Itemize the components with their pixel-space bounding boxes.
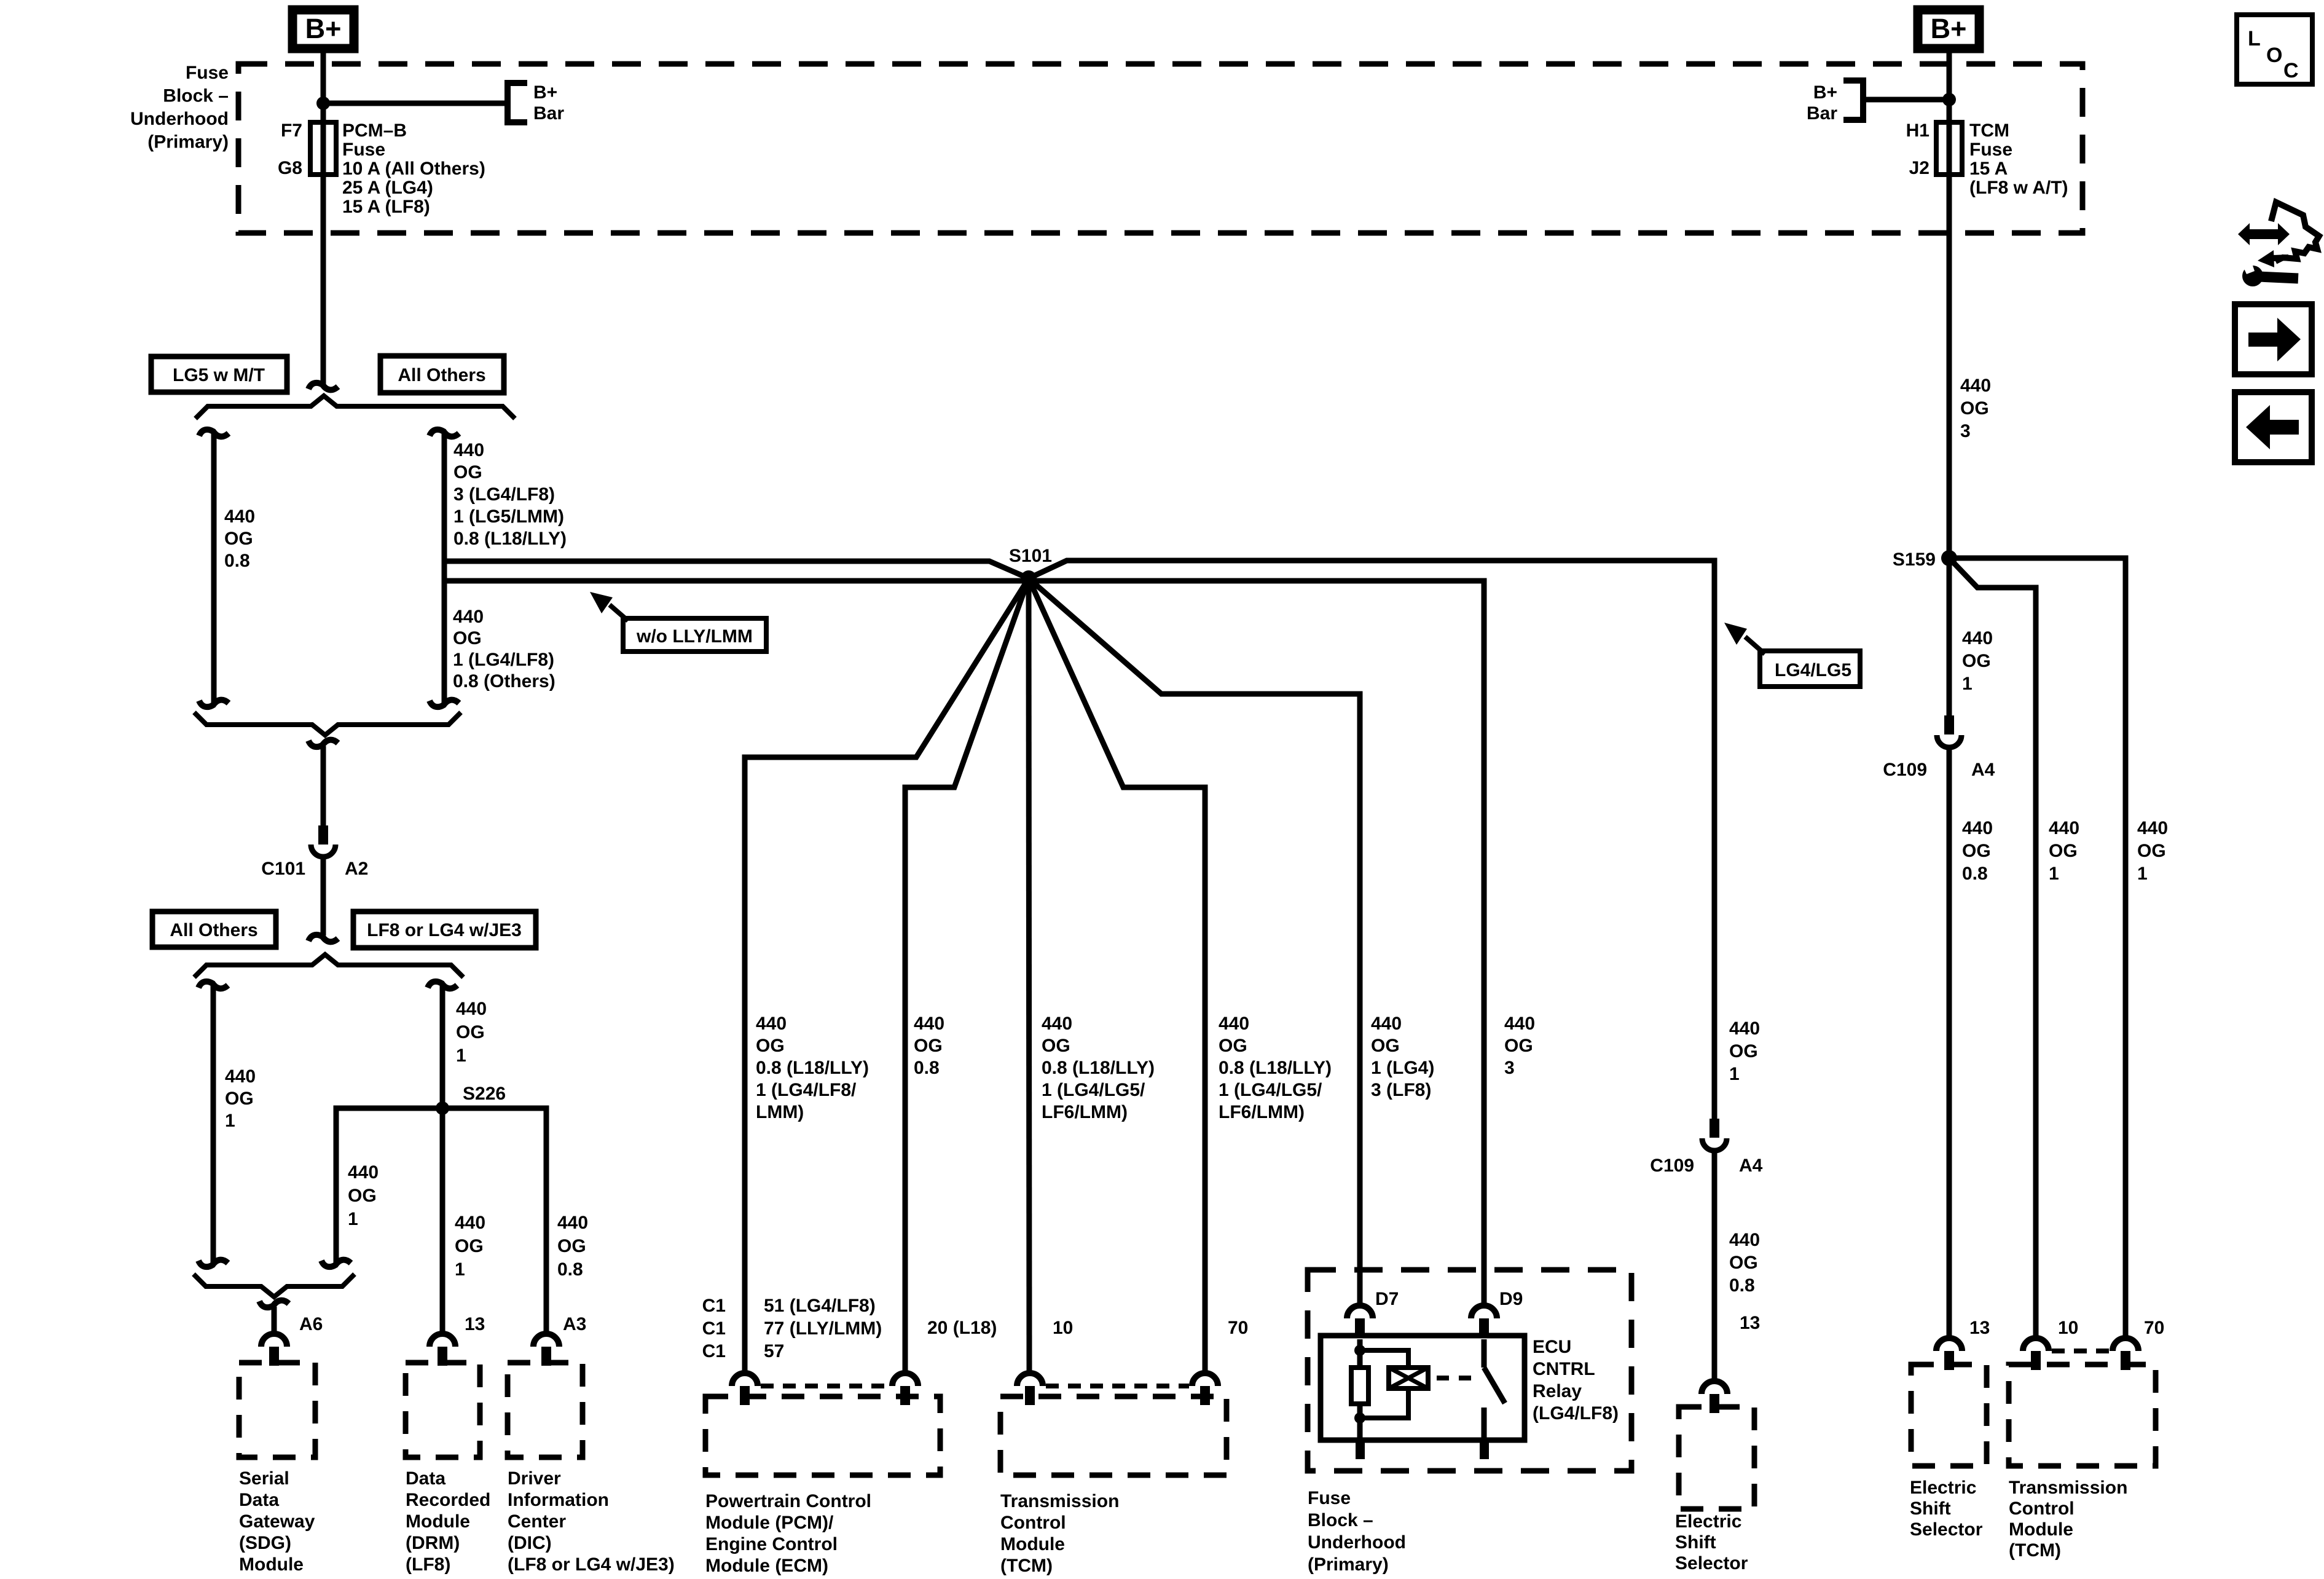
svg-text:OG: OG	[453, 462, 482, 482]
svg-text:1: 1	[225, 1111, 235, 1131]
power terminal B+ (left)	[292, 10, 354, 49]
svg-text:Selector: Selector	[1910, 1519, 1983, 1540]
arrow prev box	[2235, 392, 2312, 462]
wire S159 to pin 10 right	[1949, 558, 2036, 1336]
svg-text:(TCM): (TCM)	[1000, 1556, 1053, 1576]
svg-text:51 (LG4/LF8): 51 (LG4/LF8)	[764, 1296, 876, 1316]
svg-text:440: 440	[1729, 1230, 1760, 1250]
connector C1 51/77/57 (PCM)	[732, 1373, 758, 1386]
svg-text:OG: OG	[1371, 1036, 1400, 1056]
svg-text:Information: Information	[508, 1490, 609, 1510]
connector D7	[1347, 1305, 1373, 1318]
wire S101 to PCM pin 20	[905, 578, 1029, 1371]
svg-text:70: 70	[1228, 1318, 1248, 1338]
callout w/o LLY/LMM	[623, 618, 766, 652]
svg-text:LF8 or LG4 w/JE3: LF8 or LG4 w/JE3	[367, 920, 522, 940]
svg-text:(DRM): (DRM)	[406, 1533, 460, 1553]
connector 10 (TCM)	[1017, 1373, 1043, 1386]
svg-text:w/o LLY/LMM: w/o LLY/LMM	[636, 626, 753, 647]
relay switch	[1482, 1339, 1487, 1368]
service icon bent arrow	[2274, 258, 2288, 258]
fuse F7 PCM-B	[310, 122, 336, 175]
svg-text:(TCM): (TCM)	[2009, 1540, 2061, 1561]
svg-text:OG: OG	[557, 1236, 586, 1256]
svg-text:Shift: Shift	[1910, 1498, 1951, 1519]
svg-text:F7: F7	[281, 120, 302, 141]
svg-text:13: 13	[1740, 1313, 1760, 1333]
svg-text:B+: B+	[305, 13, 342, 44]
svg-text:1 (LG5/LMM): 1 (LG5/LMM)	[453, 506, 564, 527]
svg-text:0.8 (Others): 0.8 (Others)	[453, 671, 555, 691]
svg-text:C109: C109	[1883, 760, 1927, 780]
svg-text:1 (LG4/LF8/: 1 (LG4/LF8/	[756, 1080, 857, 1100]
svg-text:Module (PCM)/: Module (PCM)/	[705, 1513, 834, 1533]
splice S101	[1021, 570, 1037, 586]
svg-text:Underhood: Underhood	[130, 109, 229, 129]
svg-text:CNTRL: CNTRL	[1533, 1359, 1595, 1379]
svg-text:OG: OG	[456, 1022, 485, 1042]
svg-text:OG: OG	[756, 1036, 785, 1056]
svg-text:440: 440	[224, 506, 255, 527]
module data recorded module	[406, 1363, 480, 1457]
svg-text:OG: OG	[1042, 1036, 1070, 1056]
svg-text:C1: C1	[702, 1296, 726, 1316]
svg-text:OG: OG	[225, 1089, 254, 1109]
svg-text:3: 3	[1960, 421, 1971, 441]
connector C109 A4 (branch)	[1710, 1119, 1719, 1138]
svg-text:Module: Module	[406, 1511, 470, 1532]
option box LF8 or LG4 w/JE3	[353, 912, 536, 948]
service icon wrench	[2242, 266, 2263, 286]
connector C101 A2	[318, 825, 328, 845]
svg-text:PCM–B: PCM–B	[342, 120, 407, 141]
svg-text:G8: G8	[278, 158, 302, 178]
svg-text:D9: D9	[1499, 1289, 1523, 1309]
arrow next box	[2235, 304, 2312, 374]
fuse H1 TCM	[1936, 122, 1962, 175]
option box All Others	[380, 356, 504, 393]
svg-text:(DIC): (DIC)	[508, 1533, 552, 1553]
svg-text:Electric: Electric	[1910, 1478, 1976, 1498]
svg-text:Block –: Block –	[1308, 1510, 1373, 1530]
wire S101 to C109 branch	[1029, 561, 1714, 1119]
wire S226 to DIC	[442, 1108, 546, 1332]
svg-text:LMM): LMM)	[756, 1102, 804, 1122]
locator LOC box	[2237, 15, 2312, 84]
svg-text:C: C	[2283, 59, 2299, 82]
svg-text:440: 440	[1729, 1018, 1760, 1039]
svg-text:All Others: All Others	[398, 365, 485, 385]
svg-text:C1: C1	[702, 1318, 726, 1339]
merge curl A6	[259, 1301, 289, 1307]
svg-text:440: 440	[1371, 1014, 1402, 1034]
svg-text:S159: S159	[1893, 549, 1936, 570]
wire to C101	[321, 746, 326, 825]
svg-text:OG: OG	[1960, 398, 1989, 419]
svg-text:OG: OG	[1962, 651, 1991, 671]
svg-text:1 (LG4): 1 (LG4)	[1371, 1058, 1434, 1078]
svg-text:1: 1	[2137, 864, 2148, 884]
svg-text:440: 440	[1042, 1014, 1072, 1034]
svg-text:LG5 w M/T: LG5 w M/T	[173, 365, 265, 385]
svg-text:0.8: 0.8	[557, 1259, 583, 1280]
split curl	[308, 383, 338, 390]
svg-text:L: L	[2248, 27, 2261, 50]
svg-text:57: 57	[764, 1341, 784, 1361]
option box LG5 w M/T	[151, 356, 287, 392]
wire w/o LLY/LMM through S101 to relay D9	[444, 581, 1484, 1304]
svg-text:0.8 (L18/LLY): 0.8 (L18/LLY)	[1219, 1058, 1332, 1078]
svg-text:OG: OG	[2137, 841, 2166, 861]
svg-text:440: 440	[914, 1014, 944, 1034]
option box All Others 2	[152, 912, 276, 947]
svg-text:Transmission: Transmission	[1000, 1491, 1119, 1511]
wire C109 to pin 13 right	[1947, 749, 1952, 1336]
svg-text:B+: B+	[1813, 82, 1837, 103]
split brace	[195, 396, 515, 419]
connector dashes TCM	[1046, 1384, 1189, 1388]
svg-text:1 (LG4/LG5/: 1 (LG4/LG5/	[1042, 1080, 1145, 1100]
svg-text:Module: Module	[239, 1554, 304, 1575]
svg-text:(LG4/LF8): (LG4/LF8)	[1533, 1403, 1619, 1423]
connector 70 (TCM)	[1192, 1373, 1218, 1386]
connector D9	[1471, 1305, 1497, 1318]
svg-text:Module: Module	[1000, 1534, 1065, 1554]
svg-text:440: 440	[1219, 1014, 1249, 1034]
svg-text:440: 440	[453, 440, 484, 460]
svg-text:Driver: Driver	[508, 1468, 561, 1489]
branch bracket right All Others	[430, 430, 459, 436]
wire S101 to TCM pin 70	[1029, 578, 1205, 1371]
connector 13 right	[1936, 1338, 1962, 1351]
module TCM (center)	[1000, 1396, 1227, 1475]
svg-text:3 (LG4/LF8): 3 (LG4/LF8)	[453, 484, 555, 505]
svg-text:15 A: 15 A	[1969, 159, 2008, 179]
connector 10 right	[2023, 1338, 2049, 1351]
svg-text:10 A (All Others): 10 A (All Others)	[342, 159, 485, 179]
svg-text:C101: C101	[261, 859, 305, 879]
callout LG4/LG5	[1760, 651, 1860, 687]
svg-text:Electric: Electric	[1675, 1511, 1741, 1532]
relay box	[1321, 1336, 1525, 1440]
svg-text:440: 440	[557, 1213, 588, 1233]
svg-text:S226: S226	[463, 1084, 506, 1104]
branch bracket left All Others 2	[198, 982, 228, 988]
relay coil-switch dashes	[1437, 1376, 1477, 1380]
module electric shift selector (right)	[1911, 1364, 1987, 1466]
splice S159	[1941, 550, 1957, 566]
svg-text:Gateway: Gateway	[239, 1511, 315, 1532]
module TCM (right)	[2009, 1364, 2156, 1466]
connector 20 (L18) (PCM)	[892, 1373, 918, 1386]
svg-text:Fuse: Fuse	[1969, 140, 2012, 160]
branch wire right to S226	[428, 982, 457, 988]
svg-text:Serial: Serial	[239, 1468, 289, 1489]
svg-text:J2: J2	[1909, 158, 1929, 178]
svg-text:(LF8 or LG4 w/JE3): (LF8 or LG4 w/JE3)	[508, 1554, 675, 1575]
svg-text:OG: OG	[1962, 841, 1991, 861]
svg-text:Module: Module	[2009, 1519, 2073, 1540]
svg-text:0.8: 0.8	[1962, 864, 1988, 884]
svg-text:440: 440	[1962, 628, 1993, 648]
wire B+ to S159	[1947, 53, 1952, 558]
connector 13 DRM	[430, 1334, 455, 1347]
service icon outline	[2271, 202, 2319, 261]
relay node top	[1354, 1345, 1365, 1356]
splice S226	[436, 1101, 449, 1115]
svg-text:C109: C109	[1650, 1156, 1694, 1176]
merge brace A6	[194, 1274, 355, 1297]
split brace 2	[194, 955, 463, 977]
merge brace left	[194, 712, 461, 735]
svg-text:Engine Control: Engine Control	[705, 1534, 838, 1554]
svg-text:(Primary): (Primary)	[147, 132, 229, 152]
svg-text:Underhood: Underhood	[1308, 1532, 1406, 1553]
svg-text:LF6/LMM): LF6/LMM)	[1219, 1102, 1305, 1122]
connector C109 A4 (right)	[1944, 715, 1954, 734]
svg-text:(LF8): (LF8)	[406, 1554, 450, 1575]
svg-text:D7: D7	[1375, 1289, 1399, 1309]
junction node	[316, 96, 330, 110]
wire S101 to PCM pin C1	[745, 578, 1029, 1371]
service icon double arrow	[2238, 223, 2290, 245]
svg-text:10: 10	[1053, 1318, 1073, 1338]
junction node right	[1942, 93, 1956, 106]
svg-text:440: 440	[225, 1066, 256, 1087]
svg-text:0.8 (L18/LLY): 0.8 (L18/LLY)	[1042, 1058, 1155, 1078]
svg-text:C1: C1	[702, 1341, 726, 1361]
svg-text:1: 1	[455, 1259, 465, 1280]
svg-text:Shift: Shift	[1675, 1532, 1716, 1553]
svg-text:TCM: TCM	[1969, 120, 2009, 141]
split curl 2	[308, 935, 338, 942]
svg-text:OG: OG	[1729, 1041, 1758, 1061]
svg-text:Data: Data	[406, 1468, 446, 1489]
connector 70 right	[2113, 1338, 2138, 1351]
svg-text:A3: A3	[563, 1314, 586, 1334]
svg-text:OG: OG	[348, 1186, 377, 1206]
svg-text:440: 440	[456, 999, 487, 1019]
svg-text:Control: Control	[1000, 1513, 1066, 1533]
svg-text:440: 440	[1962, 818, 1993, 838]
wire S226 left leg	[336, 1108, 442, 1264]
svg-text:Fuse: Fuse	[342, 140, 385, 160]
svg-text:(SDG): (SDG)	[239, 1533, 291, 1553]
B+ bar terminal (right)	[1843, 81, 1863, 120]
svg-text:(LF8 w A/T): (LF8 w A/T)	[1969, 178, 2068, 198]
fuse block underhood dashed box	[238, 64, 2083, 233]
svg-text:Block –: Block –	[163, 86, 229, 106]
svg-text:ECU: ECU	[1533, 1337, 1571, 1357]
module PCM/ECM	[705, 1396, 940, 1475]
svg-text:Recorded: Recorded	[406, 1490, 490, 1510]
svg-text:440: 440	[2049, 818, 2079, 838]
connector A3 DIC	[533, 1334, 559, 1347]
svg-text:A2: A2	[345, 859, 368, 879]
svg-text:Bar: Bar	[1807, 103, 1837, 124]
svg-text:Control: Control	[2009, 1498, 2075, 1519]
svg-text:All Others: All Others	[170, 920, 257, 940]
module electric shift selector (left)	[1679, 1407, 1754, 1509]
wire S159 down to C109	[1947, 558, 1952, 715]
svg-text:15 A (LF8): 15 A (LF8)	[342, 197, 430, 217]
svg-text:25 A (LG4): 25 A (LG4)	[342, 178, 433, 198]
svg-text:Data: Data	[239, 1490, 279, 1510]
wire to B+ bar (left)	[323, 101, 508, 106]
svg-text:LF6/LMM): LF6/LMM)	[1042, 1102, 1128, 1122]
svg-text:A4: A4	[1971, 760, 1995, 780]
svg-text:A4: A4	[1739, 1156, 1763, 1176]
svg-text:440: 440	[756, 1014, 787, 1034]
branch bracket left LG5	[199, 430, 229, 436]
relay coil	[1360, 1350, 1408, 1368]
svg-text:70: 70	[2144, 1318, 2164, 1338]
wire S101 to relay D7	[1029, 578, 1360, 1304]
module driver information center	[508, 1363, 583, 1457]
module serial data gateway	[239, 1363, 315, 1457]
svg-text:13: 13	[465, 1314, 485, 1334]
svg-text:(Primary): (Primary)	[1308, 1554, 1389, 1575]
svg-text:OG: OG	[453, 628, 482, 648]
wire to B+ bar (right)	[1863, 97, 1949, 103]
connector 13 ESS left	[1702, 1381, 1727, 1394]
svg-text:13: 13	[1969, 1318, 1990, 1338]
svg-text:1: 1	[348, 1209, 358, 1229]
relay node bottom	[1354, 1412, 1365, 1423]
wire S101 to TCM pin 10	[1029, 578, 1029, 1371]
svg-text:H1: H1	[1906, 120, 1929, 141]
svg-text:Relay: Relay	[1533, 1381, 1582, 1401]
svg-text:10: 10	[2058, 1318, 2078, 1338]
svg-text:1 (LG4/LF8): 1 (LG4/LF8)	[453, 650, 554, 670]
svg-text:1 (LG4/LG5/: 1 (LG4/LG5/	[1219, 1080, 1322, 1100]
svg-text:0.8 (L18/LLY): 0.8 (L18/LLY)	[453, 529, 567, 549]
svg-text:Powertrain Control: Powertrain Control	[705, 1491, 871, 1511]
svg-text:77 (LLY/LMM): 77 (LLY/LMM)	[764, 1318, 882, 1339]
svg-text:1: 1	[1729, 1064, 1740, 1084]
connector A6	[261, 1334, 287, 1347]
svg-text:0.8 (L18/LLY): 0.8 (L18/LLY)	[756, 1058, 869, 1078]
svg-text:OG: OG	[1219, 1036, 1247, 1056]
wire C101 to split 2	[321, 859, 326, 935]
svg-text:440: 440	[348, 1162, 379, 1183]
svg-text:OG: OG	[914, 1036, 943, 1056]
svg-text:1: 1	[1962, 674, 1973, 694]
svg-text:O: O	[2266, 44, 2282, 67]
svg-text:Fuse: Fuse	[1308, 1488, 1351, 1508]
wire S159 to pin 70 right	[1949, 558, 2126, 1336]
merge curl	[308, 740, 338, 747]
svg-text:B+: B+	[533, 82, 557, 103]
svg-text:Center: Center	[508, 1511, 566, 1532]
svg-text:0.8: 0.8	[1729, 1275, 1755, 1296]
svg-text:0.8: 0.8	[224, 551, 250, 571]
svg-text:Fuse: Fuse	[186, 63, 229, 83]
svg-text:1: 1	[2049, 864, 2059, 884]
svg-text:OG: OG	[2049, 841, 2078, 861]
wire B+ to split	[321, 53, 326, 385]
svg-text:440: 440	[1960, 376, 1991, 396]
svg-text:1: 1	[456, 1045, 466, 1066]
svg-text:440: 440	[455, 1213, 485, 1233]
svg-text:LG4/LG5: LG4/LG5	[1775, 660, 1851, 680]
wire C109 to ESS 13	[1712, 1152, 1717, 1379]
svg-text:B+: B+	[1931, 13, 1967, 44]
svg-text:OG: OG	[1729, 1253, 1758, 1273]
svg-text:A6: A6	[299, 1314, 323, 1334]
connector dashes right TCM	[2052, 1349, 2110, 1353]
svg-text:0.8: 0.8	[914, 1058, 940, 1078]
svg-text:Module (ECM): Module (ECM)	[705, 1556, 828, 1576]
svg-text:Bar: Bar	[533, 103, 564, 124]
connector dashes PCM	[761, 1384, 889, 1388]
svg-text:3 (LF8): 3 (LF8)	[1371, 1080, 1431, 1100]
relay resistor branch	[1357, 1339, 1363, 1368]
wire S226 to DRM	[440, 1108, 446, 1332]
svg-text:OG: OG	[455, 1236, 484, 1256]
svg-text:20 (L18): 20 (L18)	[927, 1318, 997, 1338]
power terminal B+ (right)	[1918, 10, 1979, 49]
svg-text:440: 440	[453, 607, 484, 627]
svg-text:440: 440	[1504, 1014, 1535, 1034]
svg-text:3: 3	[1504, 1058, 1515, 1078]
B+ bar terminal (left)	[508, 83, 527, 122]
svg-text:Transmission: Transmission	[2009, 1478, 2127, 1498]
svg-text:S101: S101	[1009, 546, 1052, 566]
wire top to S101	[444, 561, 1029, 578]
svg-text:Selector: Selector	[1675, 1553, 1748, 1573]
svg-text:440: 440	[2137, 818, 2168, 838]
fuse block dashed box (relay)	[1308, 1270, 1631, 1471]
svg-text:OG: OG	[224, 529, 253, 549]
svg-text:OG: OG	[1504, 1036, 1533, 1056]
